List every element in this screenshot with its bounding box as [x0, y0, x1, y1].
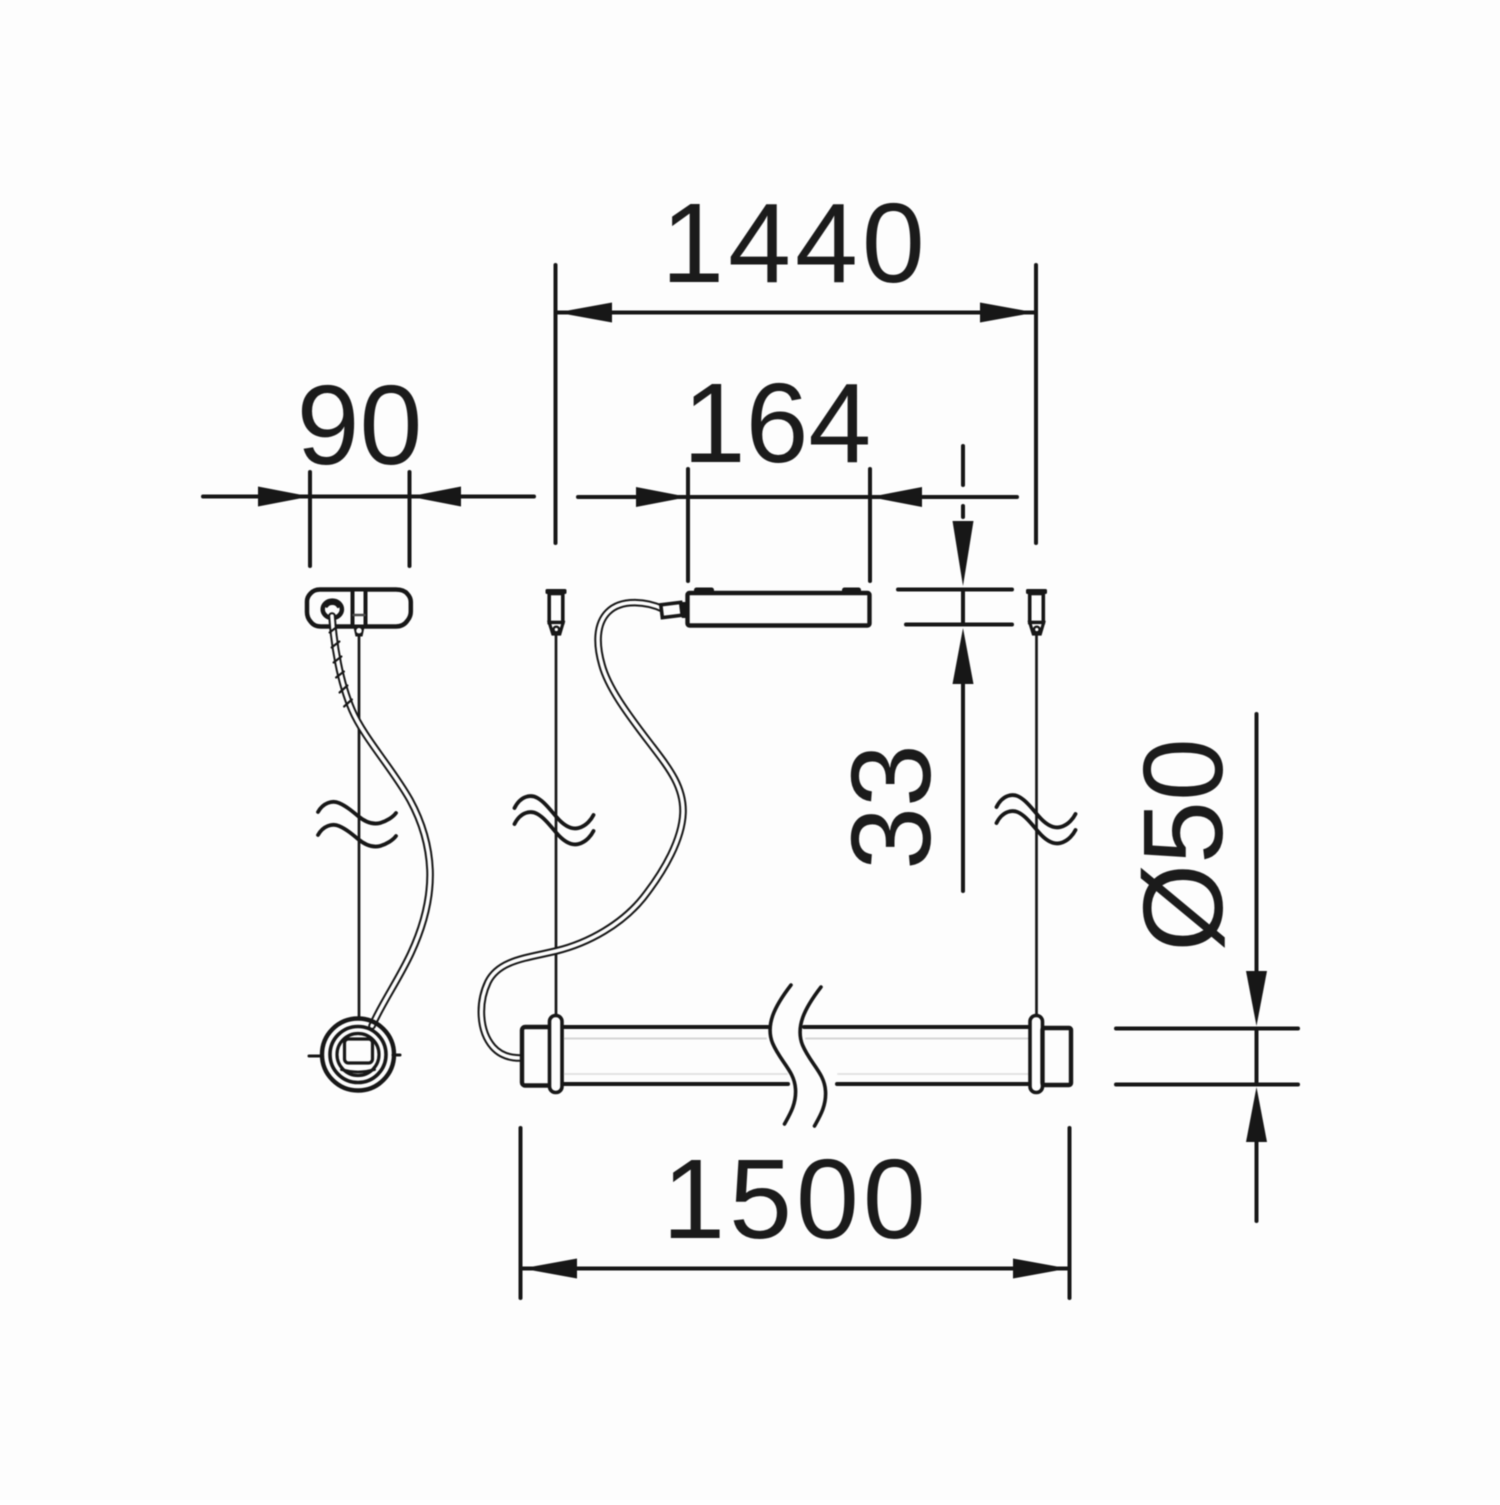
ref line Ø50 bottom (tube bottom)	[1116, 1083, 1298, 1087]
ref line 33 top (box top)	[898, 588, 1012, 592]
extension line 1440 left	[554, 265, 558, 543]
extension line 164 left	[686, 469, 690, 581]
break wave front-right lower	[997, 811, 1076, 843]
tube end view inner circle	[337, 1034, 379, 1076]
arrow 1440 right	[980, 303, 1035, 323]
dim line 90	[203, 495, 534, 499]
right ceiling gripper taper	[1030, 623, 1044, 635]
left ceiling gripper cap	[546, 589, 567, 594]
driver box tab left	[694, 588, 714, 595]
dim 33 line between refs	[961, 590, 965, 624]
arrow 164 right	[870, 487, 922, 507]
driver box tab right	[842, 588, 861, 595]
slot step line	[354, 614, 365, 617]
tube end view outer circle	[322, 1019, 394, 1091]
arrow 1500 right	[1013, 1259, 1068, 1279]
dim line 1500	[522, 1267, 1068, 1271]
left ceiling gripper body	[549, 594, 563, 623]
cord twist hatches	[330, 627, 352, 707]
gripper hole	[356, 628, 361, 633]
svg-text:33: 33	[828, 744, 954, 870]
suspension wire (side view)	[358, 636, 361, 1017]
arrow 33 down	[953, 521, 974, 586]
svg-text:90: 90	[297, 362, 423, 488]
tube break S left	[770, 985, 796, 1124]
break wave side-view upper	[318, 802, 396, 824]
break wave front-right upper	[997, 795, 1076, 827]
tube end view middle circle	[330, 1027, 386, 1083]
right ceiling gripper body	[1030, 594, 1044, 623]
cable gland	[661, 602, 682, 617]
extension line 1440 right	[1034, 265, 1038, 543]
arrow 90 right	[410, 487, 462, 507]
tube bottom edge	[562, 1082, 1032, 1086]
svg-text:1500: 1500	[662, 1136, 929, 1262]
inner square profile	[345, 1039, 373, 1063]
arrow 33 up	[953, 628, 974, 684]
tube inner shade top	[564, 1038, 1028, 1040]
dim Ø50 line between refs	[1255, 1029, 1259, 1085]
arrow 164 left	[636, 487, 688, 507]
tube inner shade bottom	[564, 1073, 1028, 1075]
extension line 1500 right	[1068, 1128, 1072, 1298]
inner bottom chord	[342, 1070, 375, 1073]
dim Ø50 shaft above	[1255, 714, 1259, 973]
arrow Ø50 down	[1246, 971, 1267, 1026]
extension line 1500 left	[519, 1128, 523, 1298]
right suspension wire	[1035, 634, 1038, 1016]
tube right end cap	[1043, 1028, 1072, 1085]
arrow 1440 left	[557, 303, 612, 323]
extension line 90 left	[308, 472, 312, 566]
arrow 1500 left	[522, 1259, 577, 1279]
dim 33 dashed leader above	[961, 446, 965, 485]
wire gripper cone	[355, 627, 364, 636]
power cord (side view) outer	[332, 616, 430, 1026]
arrow Ø50 up	[1246, 1087, 1267, 1142]
suspension ring left	[550, 1016, 563, 1093]
cable gland dark collar	[682, 602, 688, 618]
power cord (side view) core	[332, 616, 430, 1026]
extension line 90 right	[408, 472, 412, 566]
dim 33 tail below	[961, 682, 965, 891]
canopy body	[307, 590, 411, 627]
grommet inner arc	[327, 604, 338, 607]
dim line 1440	[557, 311, 1035, 315]
driver box	[688, 593, 870, 626]
centerline tick left	[309, 1055, 322, 1058]
power cord (front view) core	[481, 603, 683, 1058]
right gripper hole	[1034, 627, 1040, 633]
dim Ø50 tail below	[1255, 1140, 1259, 1221]
power cord (front view) outer	[481, 603, 683, 1058]
tube break S right	[800, 987, 826, 1126]
break wave side-view lower	[318, 825, 396, 847]
svg-text:1440: 1440	[661, 180, 928, 306]
tube top edge	[562, 1025, 1032, 1029]
ref line Ø50 top (tube top)	[1116, 1027, 1298, 1031]
svg-text:Ø50: Ø50	[1120, 738, 1246, 952]
break wave front-left upper	[515, 796, 594, 828]
right ceiling gripper cap	[1026, 589, 1047, 594]
left ceiling gripper taper	[549, 623, 563, 635]
centerline tick right	[393, 1054, 400, 1057]
canopy cable grommet	[323, 601, 342, 618]
left suspension wire	[555, 634, 558, 1016]
extension line 164 right	[868, 469, 872, 581]
canopy wire slot	[353, 590, 366, 627]
suspension ring right	[1030, 1016, 1043, 1093]
dim line 164	[578, 495, 1017, 499]
left gripper hole	[554, 627, 560, 633]
arrow 90 left	[258, 487, 310, 507]
break wave front-left lower	[515, 812, 594, 844]
tube left end cap	[522, 1027, 562, 1086]
svg-text:164: 164	[683, 360, 872, 486]
ref line 33 bottom (box bottom)	[906, 623, 1012, 627]
